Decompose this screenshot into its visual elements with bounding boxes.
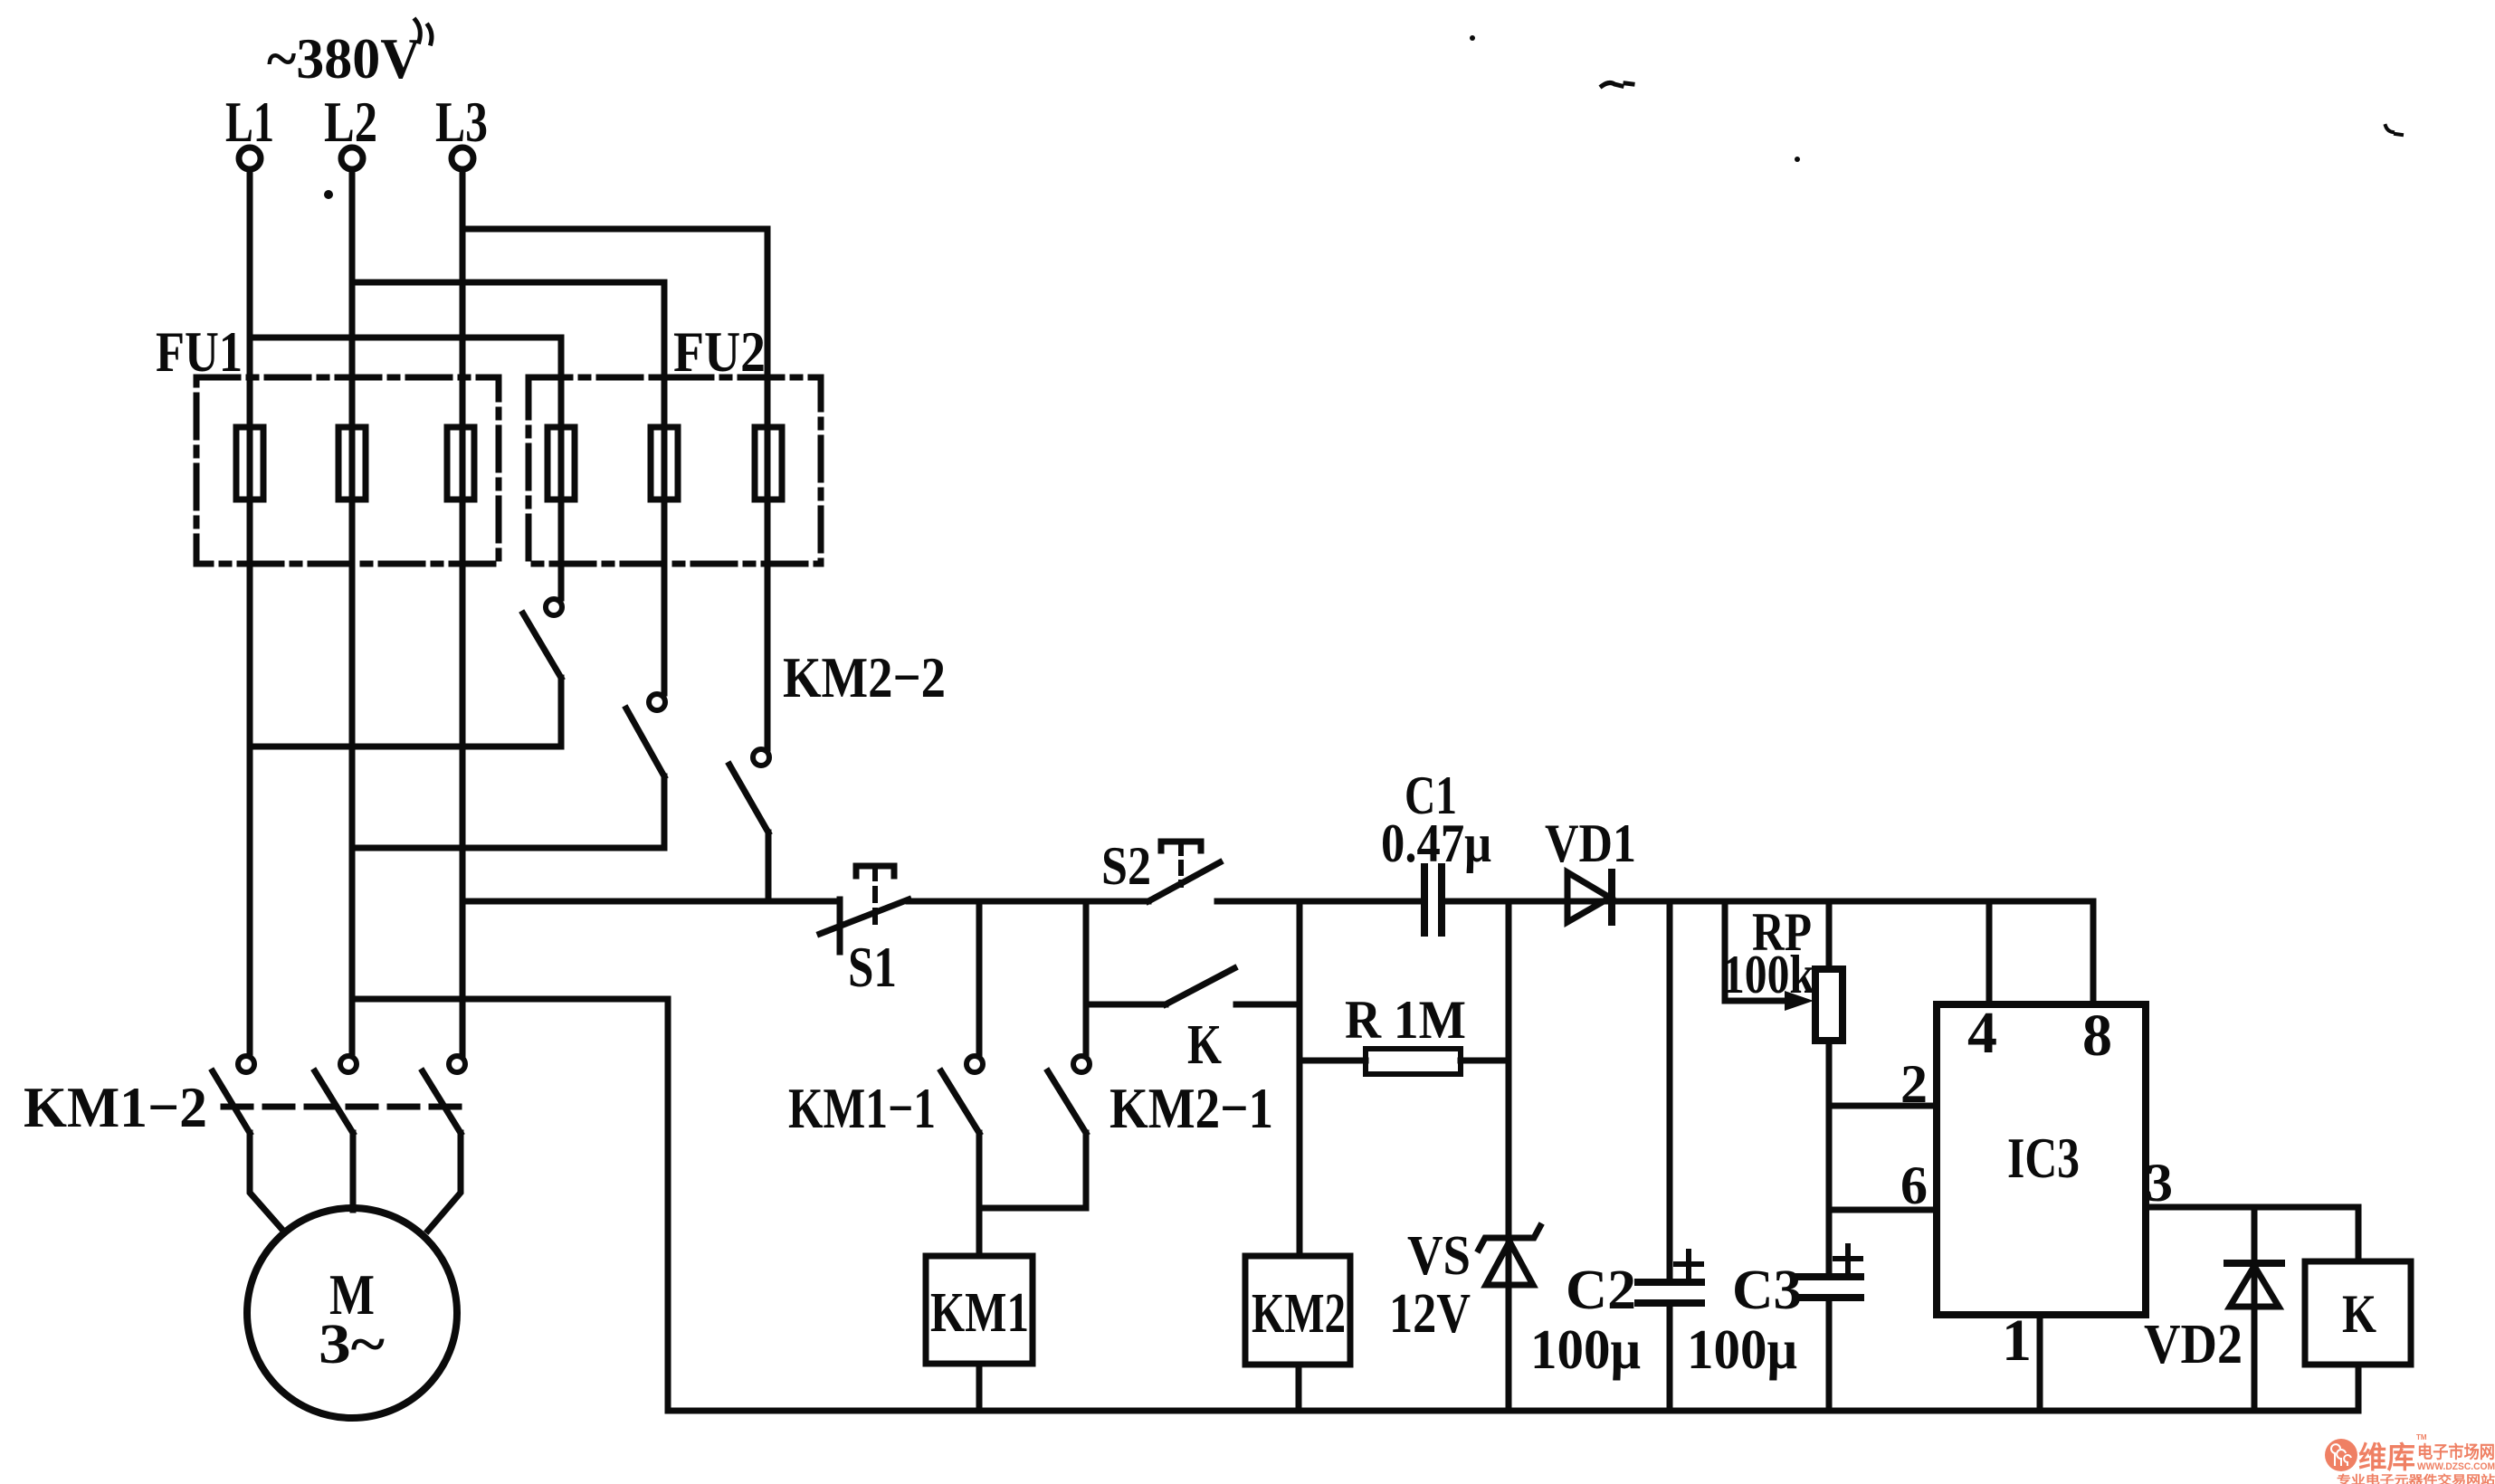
wire jumper L2 to FU2 fuse 5: [352, 282, 664, 693]
pin 8 lead: [2090, 901, 2097, 1004]
ink speck 2: [1470, 35, 1633, 86]
coil KM2: [1245, 1256, 1350, 1411]
diode VD2: [2227, 1207, 2281, 1411]
label 12V: [1389, 1283, 1471, 1345]
svg-text:12V: 12V: [1389, 1283, 1471, 1345]
label L1: [225, 90, 274, 154]
svg-text:VD1: VD1: [1545, 813, 1636, 873]
potentiometer RP: [1725, 901, 1843, 1277]
svg-text:~380V: ~380V: [267, 26, 421, 90]
capacitor C1: [1424, 867, 1442, 933]
svg-text:C2: C2: [1566, 1260, 1636, 1321]
label pin 2: [1900, 1054, 1928, 1114]
pin 6 wire: [1829, 1207, 1937, 1213]
svg-text:TM: TM: [2416, 1433, 2427, 1441]
label VD2: [2144, 1314, 2243, 1375]
svg-text:专业电子元器件交易网站: 专业电子元器件交易网站: [2337, 1473, 2495, 1484]
label K contact: [1187, 1014, 1222, 1076]
ink speck 1: [324, 190, 333, 199]
relay coil K: [2305, 1261, 2411, 1411]
KM1-2 mechanical link dashed: [224, 1104, 471, 1110]
coil KM1: [926, 1256, 1033, 1411]
svg-text:IC3: IC3: [2007, 1127, 2080, 1190]
IC3 timer box: [1937, 1004, 2146, 1315]
svg-text:100k: 100k: [1722, 945, 1815, 1004]
wire L3 vertical: [460, 169, 466, 1055]
svg-text:1: 1: [2002, 1308, 2032, 1374]
fuse F2: [338, 427, 366, 499]
svg-text:6: 6: [1900, 1156, 1928, 1215]
label C2: [1566, 1260, 1636, 1321]
pin 1 lead: [2037, 1315, 2043, 1411]
wire rail S1 to S2: [909, 899, 1148, 905]
contactor KM2-2 pole 1: [523, 599, 562, 747]
svg-text:3: 3: [2146, 1153, 2173, 1213]
wire L1 vertical: [247, 169, 253, 1055]
label pin 3: [2146, 1153, 2173, 1213]
wire KM2-2 pole2 to L2 line: [352, 845, 664, 851]
relay contact K: [1086, 968, 1300, 1004]
label S1: [848, 935, 897, 999]
wire jumper L1 to FU2 fuse 4: [250, 338, 561, 598]
label M 3~: [319, 1262, 385, 1375]
control rail top: [462, 899, 840, 905]
fuse block FU1 dash-dot box: [196, 377, 499, 564]
label C2 100u: [1530, 1319, 1641, 1381]
svg-text:KM1−2: KM1−2: [24, 1075, 207, 1139]
ink speck 4: [1795, 126, 2402, 162]
wire L2 tap to bottom rail riser: [352, 999, 668, 1411]
wire rail C1 to pin8 corner: [1442, 899, 2093, 905]
label C1: [1405, 766, 1457, 825]
svg-text:K: K: [2342, 1284, 2376, 1344]
svg-text:维库: 维库: [2358, 1441, 2415, 1474]
label KM2-2: [783, 645, 946, 709]
wire rail S2 to C1: [1217, 899, 1422, 905]
pin 2 wire: [1829, 1103, 1937, 1109]
fuse F1: [236, 427, 263, 499]
terminal L3: [452, 147, 473, 169]
wire branch to KM2-1: [1083, 901, 1090, 1055]
label KM2-1: [1109, 1076, 1273, 1140]
svg-text:KM2−2: KM2−2: [783, 645, 946, 709]
svg-text:S2: S2: [1101, 836, 1151, 896]
fuse F4: [548, 427, 575, 499]
label C3: [1732, 1260, 1802, 1321]
label KM1-2: [24, 1075, 207, 1139]
svg-text:100μ: 100μ: [1687, 1319, 1797, 1381]
wire VS branch vertical: [1506, 901, 1512, 1411]
wire KM2 branch vertical: [1297, 901, 1303, 1256]
diode VD1: [1567, 872, 1612, 922]
pushbutton S1 (NC): [820, 866, 909, 952]
fuse F6: [755, 427, 782, 499]
pin 4 lead: [1986, 901, 1993, 1004]
label 100k: [1722, 945, 1815, 1004]
fuse block FU2 dash-dot box: [529, 377, 821, 564]
svg-text:FU1: FU1: [156, 319, 243, 384]
label relay K: [2342, 1284, 2376, 1344]
label pin 4: [1967, 1000, 1997, 1066]
contactor KM1-2 pole 1: [213, 1056, 283, 1231]
resistor R 1M: [1300, 1049, 1509, 1074]
svg-text:VD2: VD2: [2144, 1314, 2243, 1375]
contactor KM1-2 pole 2: [315, 1056, 357, 1210]
label R 1M: [1345, 990, 1466, 1050]
label RP: [1752, 902, 1812, 962]
svg-text:4: 4: [1967, 1000, 1997, 1066]
svg-text:K: K: [1187, 1014, 1222, 1076]
fuse F3: [447, 427, 474, 499]
label VD1: [1545, 813, 1636, 873]
wire branch to KM1-1: [976, 901, 983, 1055]
contactor KM2-2 pole 3: [729, 749, 769, 901]
label VS: [1407, 1225, 1471, 1287]
label FU1: [156, 319, 243, 384]
wire KM2-2 pole1 to L1 line: [250, 744, 561, 750]
svg-text:L3: L3: [435, 90, 488, 154]
wire KM2-1 join KM1-1: [979, 1205, 1086, 1212]
label pin 8: [2082, 1003, 2112, 1069]
auxiliary contact KM1-1: [941, 1056, 983, 1256]
watermark weiku logo: [2325, 1433, 2495, 1484]
motor M circle: [247, 1208, 457, 1418]
svg-text:KM1: KM1: [930, 1282, 1029, 1344]
zener diode VS: [1479, 1226, 1540, 1285]
svg-text:FU2: FU2: [673, 319, 766, 384]
label pin 1: [2002, 1308, 2032, 1374]
wire L2 vertical: [349, 169, 356, 1055]
svg-text:L1: L1: [225, 90, 274, 154]
svg-text:3~: 3~: [319, 1314, 385, 1375]
bottom rail: [668, 1408, 2358, 1414]
label IC3: [2007, 1127, 2080, 1190]
label ~380V supply: [267, 26, 421, 90]
svg-text:VS: VS: [1407, 1225, 1471, 1287]
svg-text:100μ: 100μ: [1530, 1319, 1641, 1381]
svg-text:KM2: KM2: [1252, 1283, 1346, 1345]
terminal L1: [239, 147, 261, 169]
contactor KM2-2 pole 2: [626, 694, 665, 848]
svg-text:R 1M: R 1M: [1345, 990, 1466, 1050]
capacitor C2 electrolytic: [1638, 901, 1701, 1411]
svg-text:8: 8: [2082, 1003, 2112, 1069]
fuse F5: [651, 427, 678, 499]
pushbutton S2 (NO): [1148, 842, 1220, 901]
label L2: [324, 90, 377, 154]
auxiliary contact KM2-1: [1048, 1056, 1090, 1208]
label S2: [1101, 836, 1151, 896]
terminal L2: [341, 147, 363, 169]
svg-text:S1: S1: [848, 935, 897, 999]
svg-text:电子市场网: 电子市场网: [2417, 1441, 2495, 1462]
capacitor C3 electrolytic: [1797, 1246, 1861, 1411]
label FU2: [673, 319, 766, 384]
wire jumper L3 to FU2 fuse 6: [462, 229, 767, 748]
label L3: [435, 90, 488, 154]
pin 3 wire: [2146, 1207, 2358, 1261]
label 0.47u: [1381, 813, 1491, 873]
contactor KM1-2 pole 3: [423, 1056, 465, 1231]
label pin 6: [1900, 1156, 1928, 1215]
label C3 100u: [1687, 1319, 1797, 1381]
label KM1-1: [788, 1076, 936, 1140]
svg-text:0.47μ: 0.47μ: [1381, 813, 1491, 873]
svg-text:KM2−1: KM2−1: [1109, 1076, 1273, 1140]
svg-text:WWW.DZSC.COM: WWW.DZSC.COM: [2417, 1461, 2495, 1472]
ink speck 3: [415, 20, 432, 43]
svg-text:KM1−1: KM1−1: [788, 1076, 936, 1140]
svg-text:L2: L2: [324, 90, 377, 154]
svg-text:C3: C3: [1732, 1260, 1802, 1321]
svg-text:2: 2: [1900, 1054, 1928, 1114]
